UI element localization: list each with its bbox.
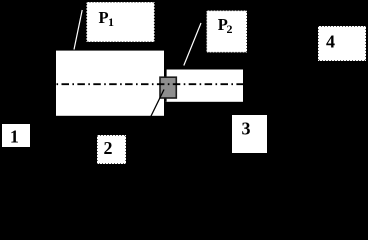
leader line to P1 [74, 10, 82, 50]
svg-text:1: 1 [10, 127, 19, 147]
leader line to P2 [184, 23, 201, 66]
svg-text:3: 3 [242, 118, 251, 138]
cylinder body [56, 51, 164, 116]
svg-text:4: 4 [326, 31, 335, 51]
label box 3 [232, 115, 267, 153]
svg-text:2: 2 [227, 22, 233, 36]
label box P2 [207, 11, 248, 53]
svg-text:2: 2 [104, 138, 113, 158]
piston rod [165, 70, 243, 102]
cylinder right wall (junction line) [165, 70, 167, 102]
label box P1 [87, 2, 155, 42]
leader line from piston to label 2 [150, 90, 164, 118]
svg-text:1: 1 [108, 15, 114, 29]
label box 2 [97, 135, 126, 164]
centerline (dash-dot axis) [57, 83, 244, 85]
piston (gray square) [160, 77, 176, 98]
label box 4 [318, 26, 366, 61]
label box 1 [2, 124, 30, 147]
